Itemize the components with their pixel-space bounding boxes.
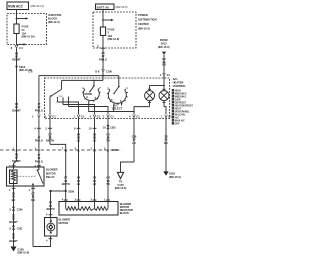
svg-text:E: E xyxy=(97,45,99,49)
svg-text:C1: C1 xyxy=(110,114,114,118)
svg-text:(8W-15-6): (8W-15-6) xyxy=(169,175,181,179)
svg-text:CONTROL: CONTROL xyxy=(173,84,187,88)
svg-text:MAX A/C: MAX A/C xyxy=(175,119,185,122)
svg-text:D-8: D-8 xyxy=(95,70,100,74)
svg-text:OR: OR xyxy=(162,62,166,66)
svg-text:(8W-12-2): (8W-12-2) xyxy=(48,20,60,24)
svg-text:1: 1 xyxy=(56,102,57,104)
svg-text:MEDIUM 2: MEDIUM 2 xyxy=(175,93,187,95)
svg-text:PK/LG: PK/LG xyxy=(35,108,43,112)
svg-text:(8W-10-11): (8W-10-11) xyxy=(31,4,44,8)
svg-text:S206: S206 xyxy=(68,190,74,193)
svg-text:FROM: FROM xyxy=(160,38,168,42)
svg-text:(8W-12-16): (8W-12-16) xyxy=(22,35,35,39)
svg-text:RUN ACC: RUN ACC xyxy=(8,4,23,8)
svg-text:BK/TN: BK/TN xyxy=(62,182,70,186)
svg-text:MOTOR: MOTOR xyxy=(46,171,56,175)
svg-text:PK/LG: PK/LG xyxy=(35,159,43,163)
svg-text:BK/TN: BK/TN xyxy=(46,139,54,143)
svg-text:(8W-10-5): (8W-10-5) xyxy=(116,5,128,9)
svg-text:C280: C280 xyxy=(112,149,118,152)
svg-text:S013: S013 xyxy=(161,43,167,46)
svg-text:HEAT: HEAT xyxy=(175,107,182,110)
svg-text:BK/WT: BK/WT xyxy=(9,220,18,224)
svg-text:OFF: OFF xyxy=(175,123,180,125)
svg-text:15A: 15A xyxy=(22,31,27,35)
svg-text:2: 2 xyxy=(62,103,63,105)
svg-text:DB: DB xyxy=(31,198,35,202)
svg-text:HEATER: HEATER xyxy=(173,81,184,85)
svg-text:C1: C1 xyxy=(52,114,56,118)
svg-text:PK/LG: PK/LG xyxy=(35,138,43,142)
svg-text:RELAY: RELAY xyxy=(46,175,55,179)
svg-text:A/C: A/C xyxy=(175,116,179,119)
svg-text:DISTRIBUTION: DISTRIBUTION xyxy=(138,18,157,22)
svg-text:BATT A0: BATT A0 xyxy=(97,5,110,9)
svg-text:LO: LO xyxy=(132,141,136,145)
svg-text:A/C-: A/C- xyxy=(173,77,179,81)
svg-text:(8W-15-6): (8W-15-6) xyxy=(18,251,30,255)
svg-text:LG: LG xyxy=(77,139,81,143)
svg-text:DB/WT: DB/WT xyxy=(12,159,21,163)
svg-text:DB/WT: DB/WT xyxy=(12,57,21,61)
svg-text:BLOCK: BLOCK xyxy=(48,16,57,20)
svg-text:(8W-10-6): (8W-10-6) xyxy=(115,186,127,190)
svg-text:OFF: OFF xyxy=(59,96,64,98)
svg-text:C-8: C-8 xyxy=(28,70,33,74)
svg-text:C1: C1 xyxy=(97,114,101,118)
svg-text:TN: TN xyxy=(106,139,110,143)
svg-text:(8W-10-2): (8W-10-2) xyxy=(138,27,150,31)
svg-text:CENTER: CENTER xyxy=(138,22,149,26)
svg-text:HEAT/DEFROST: HEAT/DEFROST xyxy=(175,104,194,107)
svg-text:BK/WT: BK/WT xyxy=(9,239,18,243)
svg-text:MEDIUM 1: MEDIUM 1 xyxy=(175,96,187,98)
svg-text:(8W-12-8): (8W-12-8) xyxy=(108,37,120,41)
svg-text:MOTOR: MOTOR xyxy=(59,221,69,225)
svg-text:LO: LO xyxy=(93,182,97,186)
svg-text:(8W-15-6): (8W-15-6) xyxy=(158,45,170,49)
svg-text:BK: BK xyxy=(12,198,16,202)
svg-text:C100: C100 xyxy=(106,70,113,74)
svg-text:VENT/PANEL: VENT/PANEL xyxy=(175,110,190,113)
svg-text:C4: C4 xyxy=(19,46,23,50)
svg-text:LOW: LOW xyxy=(175,99,181,101)
svg-text:LG: LG xyxy=(77,182,81,186)
svg-text:HIGH: HIGH xyxy=(175,90,181,92)
svg-text:LO: LO xyxy=(93,139,97,143)
svg-text:C1: C1 xyxy=(136,114,140,118)
svg-text:BK/TN: BK/TN xyxy=(47,207,55,211)
svg-text:BI-LEVEL: BI-LEVEL xyxy=(175,114,186,116)
svg-text:BLOWER: BLOWER xyxy=(46,168,58,172)
svg-text:C1: C1 xyxy=(81,114,85,118)
svg-text:JUNCTION: JUNCTION xyxy=(48,13,61,17)
svg-text:C201: C201 xyxy=(17,227,23,230)
svg-text:C1: C1 xyxy=(168,114,172,118)
svg-text:BK: BK xyxy=(164,141,168,145)
svg-text:C206: C206 xyxy=(17,208,23,211)
svg-text:BLOWER: BLOWER xyxy=(59,218,71,222)
svg-text:FUSE: FUSE xyxy=(22,25,29,29)
svg-text:C281: C281 xyxy=(110,127,116,130)
svg-text:TN: TN xyxy=(106,182,110,186)
svg-text:BLOCK: BLOCK xyxy=(120,211,129,215)
svg-text:POWER: POWER xyxy=(138,13,148,17)
svg-text:DB/WT: DB/WT xyxy=(12,108,21,112)
svg-text:DEFROST: DEFROST xyxy=(175,102,187,104)
svg-text:RD/LG: RD/LG xyxy=(99,58,107,62)
